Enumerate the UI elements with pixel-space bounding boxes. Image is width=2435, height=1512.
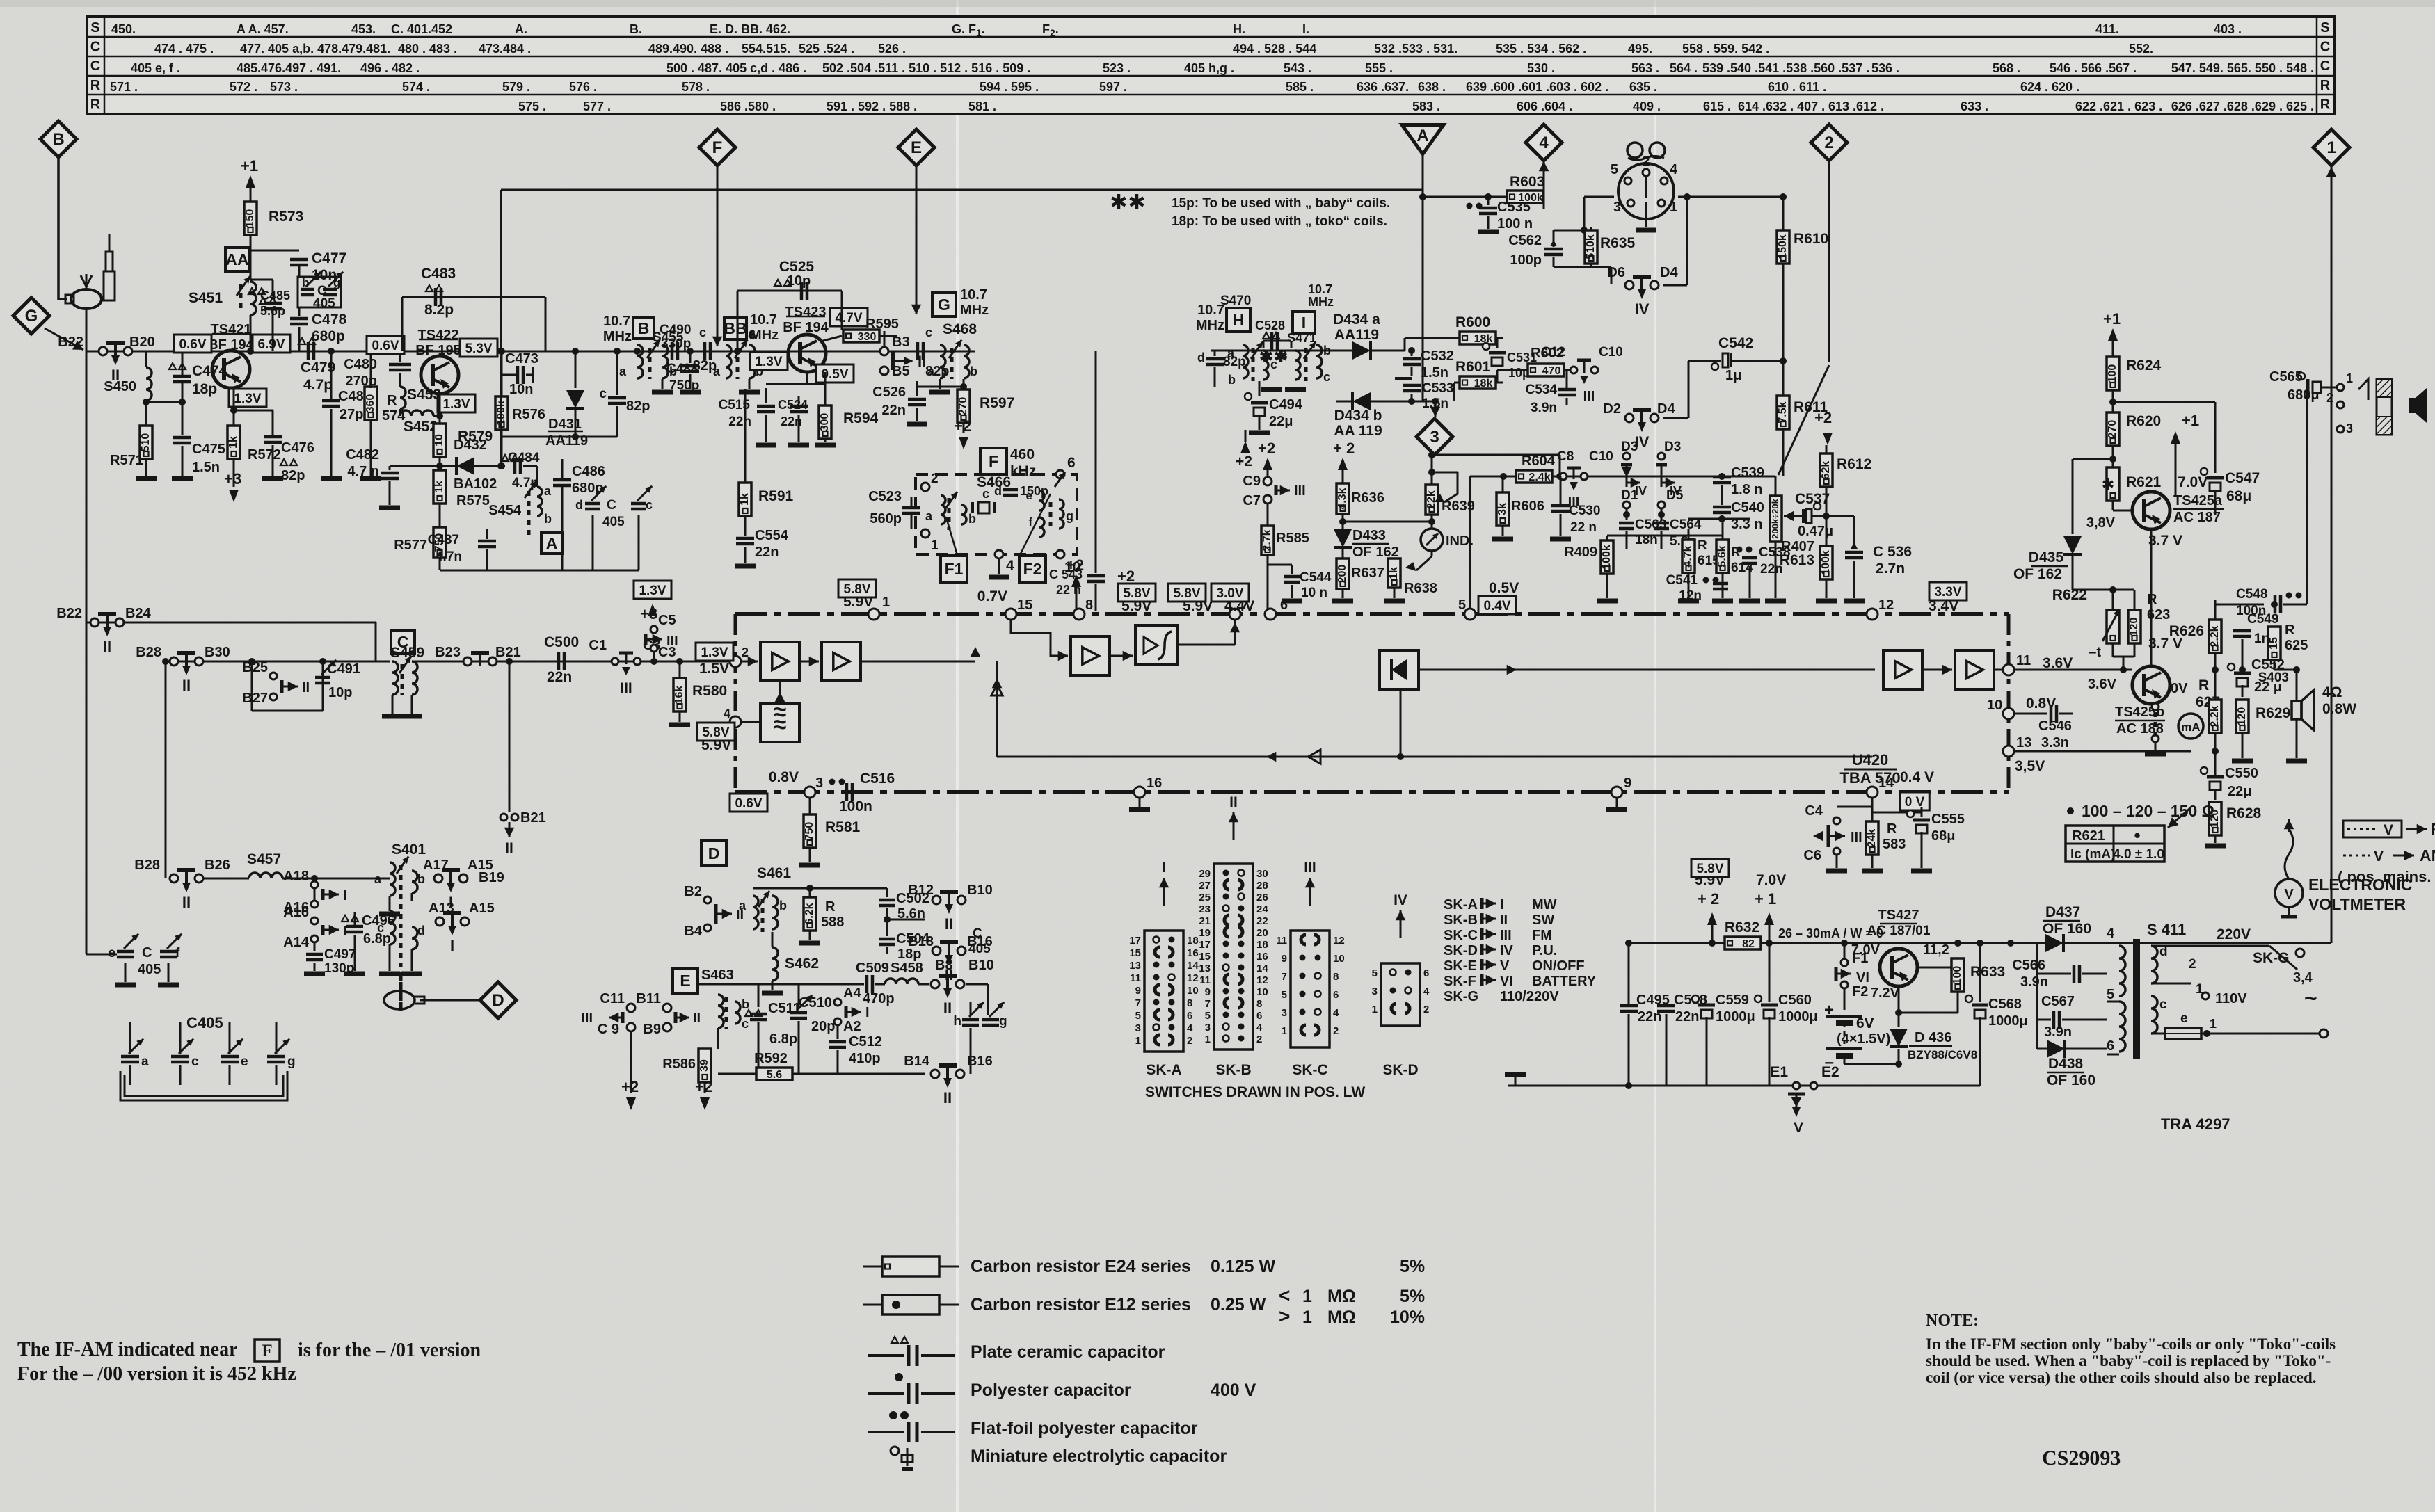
svg-text:B9: B9 [643,1022,661,1037]
capacitor C538 22n [1737,547,1743,553]
switch D1 D5 [1623,501,1630,508]
resistor R626 2.2k [2214,600,2217,620]
svg-text:4: 4 [2107,926,2115,941]
svg-text:R: R [387,393,397,408]
svg-text:C516: C516 [860,771,895,787]
svg-text:16: 16 [1256,951,1268,963]
svg-text:2.7k: 2.7k [1261,529,1273,551]
capacitor C552 22u [2234,672,2251,675]
svg-text:BZY88/C6V8: BZY88/C6V8 [1908,1048,1977,1061]
svg-text:68μ: 68μ [1931,828,1955,844]
pin 13 [2003,746,2014,757]
svg-text:I.: I. [1302,22,1309,36]
svg-text:SK-B: SK-B [1215,1062,1251,1078]
transistor TS425a AC187 [2132,492,2170,529]
svg-text:4: 4 [1256,1022,1263,1034]
svg-text:6: 6 [1280,597,1288,613]
supply +1 at TS425a collector [2171,431,2180,444]
ground under R571 [136,476,157,481]
voltage 1.3V +3 above [634,581,671,599]
svg-text:d: d [575,498,583,512]
capacitor C528 [1263,332,1270,339]
svg-text:B12: B12 [908,883,934,898]
svg-text:C535: C535 [1497,200,1531,215]
svg-text:OF 160: OF 160 [2047,1072,2095,1088]
svg-text:c: c [599,387,607,401]
svg-text:AA119: AA119 [1334,327,1379,343]
svg-text:C547: C547 [2225,470,2260,486]
svg-text:546 . 566 .567 .: 546 . 566 .567 . [2050,61,2137,75]
connector diamond 3 [1416,419,1453,455]
svg-text:(4×1.5V): (4×1.5V) [1837,1031,1890,1047]
svg-text:a: a [925,509,933,523]
svg-text:D434 b: D434 b [1334,408,1382,424]
capacitor C477 10n [250,250,299,252]
svg-text:B.: B. [630,22,642,36]
capacitor C473 10n [502,374,516,376]
ground symbol power [1508,1071,1509,1086]
svg-text:10: 10 [433,434,445,447]
ground under pin 4 [998,558,1000,574]
box D [701,841,726,866]
svg-text:17: 17 [1129,935,1141,947]
wire C541 row [1607,535,1723,537]
svg-text:C3: C3 [658,645,676,660]
svg-text:+ 2: + 2 [1698,890,1719,908]
svg-text:4: 4 [1333,1007,1339,1019]
wire D433 junction to R639 [1343,521,1432,523]
svg-text:is for the – /01 version: is for the – /01 version [298,1340,481,1361]
switch D3 D3 [1623,453,1630,460]
svg-text:FM: FM [2431,820,2435,838]
svg-text:18: 18 [1256,939,1268,951]
limiter to det wire [1177,644,1235,646]
svg-text:D5: D5 [1666,488,1684,503]
capacitor C567 3.9n [2036,974,2038,1020]
svg-text:11: 11 [2016,653,2031,668]
wire pin13 y=1080 [2014,750,2191,753]
svg-text:460: 460 [1010,447,1035,463]
svg-text:R638: R638 [1404,581,1437,596]
svg-text:474 . 475 .: 474 . 475 . [154,42,214,56]
wire to S401 [314,878,316,901]
dashed link TS425b emitter to meter [2152,703,2159,710]
resistor R580 16k [676,658,683,665]
switch F1 F2 fuse link [1841,959,1848,966]
svg-text:II: II [945,915,953,933]
svg-text:G: G [938,296,950,314]
svg-text:C523: C523 [868,489,902,504]
svg-text:a: a [927,364,935,378]
svg-text:C480: C480 [344,357,377,372]
wire diamond3 row y=654 [1432,454,1560,456]
capacitor d 150p [1003,488,1018,492]
svg-text:18: 18 [1187,935,1199,947]
diode D434b AA119 [1336,401,1352,403]
fuse [2151,1033,2165,1035]
svg-text:5: 5 [1611,162,1618,177]
svg-text:19: 19 [1199,927,1211,939]
svg-text:SW: SW [1532,912,1554,928]
svg-text:S457: S457 [247,851,281,867]
svg-text:C11: C11 [600,991,625,1006]
wire from B down to antenna [58,157,67,299]
diode D436 zener BZY88/C6V8 [1890,1029,1908,1047]
capacitor C566 3.9n [2073,965,2076,983]
svg-text:3k: 3k [1496,503,1508,515]
svg-text:0.7V: 0.7V [977,588,1007,604]
svg-text:B14: B14 [904,1054,930,1069]
svg-text:4.4V: 4.4V [1224,598,1254,614]
svg-text:405: 405 [138,962,161,977]
svg-text:15: 15 [2268,637,2280,650]
oscillator block [760,703,799,742]
svg-text:B: B [52,130,64,149]
resistor R573 150 [246,175,255,188]
wire osc up arrow [779,692,781,703]
svg-text:638 .: 638 . [1418,80,1446,94]
svg-text:For the – /00 version it is 45: For the – /00 version it is 452 kHz [17,1363,296,1385]
wire jack to speaker S403 [2336,392,2337,400]
svg-text:D4: D4 [1657,401,1675,417]
svg-text:4: 4 [1670,162,1678,177]
svg-text:E: E [680,972,690,990]
svg-text:3.3n: 3.3n [2041,735,2069,750]
wire S456 to TS423 [749,351,789,353]
capacitor C536 2.7n [1826,515,1854,517]
wire amp1 amp2 [799,661,819,663]
svg-text:5: 5 [2107,987,2114,1002]
svg-text:D 436: D 436 [1915,1030,1951,1045]
svg-text:C405: C405 [186,1014,223,1031]
switch A16 A14 [311,917,318,924]
svg-text:D6: D6 [1607,265,1625,280]
junction to C547 [2109,399,2116,405]
svg-text:523 .: 523 . [1103,61,1131,75]
svg-text:1: 1 [1282,1025,1287,1037]
wire pin2 to amp1 [741,661,758,663]
tuning gang C405 section a [129,1022,131,1054]
wire row y=628 from D431 [502,436,617,438]
svg-text:g: g [287,1054,296,1069]
svg-text:150k: 150k [1777,234,1789,259]
DIN connector socket [1618,163,1674,219]
svg-text:1: 1 [1205,1034,1211,1045]
arrow into R407 wiper [1784,515,1802,517]
connector triangle A [1402,125,1444,154]
svg-text:C560: C560 [1778,992,1812,1008]
svg-text:Miniature electrolytic capacit: Miniature electrolytic capacitor [971,1447,1227,1466]
svg-text:576 .: 576 . [569,80,597,94]
svg-text:6.8p: 6.8p [769,1031,797,1047]
wire top S461 row [753,887,887,890]
svg-text:500 . 487. 405 c,d . 486 .: 500 . 487. 405 c,d . 486 . [666,61,806,75]
svg-text:R409: R409 [1564,545,1597,560]
svg-text:E2: E2 [1821,1064,1839,1080]
svg-text:SK-D: SK-D [1444,943,1478,958]
capacitor C530 22n [1560,476,1562,504]
svg-text:BB: BB [724,319,747,337]
svg-text:10.7: 10.7 [1308,282,1332,296]
svg-text:1000μ: 1000μ [1716,1009,1755,1024]
wire TS423 collector up [823,336,842,341]
svg-text:6: 6 [1333,989,1339,1001]
trimmer C1 C3 [612,658,618,665]
svg-text:1.3V: 1.3V [234,392,261,406]
arrow from G to main bus [45,328,83,350]
wire B-line down x=238 [165,661,167,878]
svg-text:e: e [241,1054,248,1069]
svg-text:110V: 110V [2215,991,2247,1006]
svg-text:100k: 100k [1820,550,1832,575]
resistor R620 270 [2107,412,2119,446]
svg-text:S463: S463 [701,967,734,983]
svg-text:536 .: 536 . [1871,61,1899,75]
svg-text:SK-D: SK-D [1382,1062,1418,1078]
svg-text:C 9: C 9 [598,1022,619,1037]
resistor R594 300 [824,372,827,405]
svg-text:S403: S403 [2258,670,2289,685]
svg-text:405 e, f .: 405 e, f . [131,61,180,75]
svg-text:+2: +2 [621,1078,639,1095]
coil S401 c d [390,911,395,944]
svg-text:U420: U420 [1852,751,1889,769]
capacitor d 82p at S470 [1214,351,1216,356]
svg-text:+ 2: + 2 [1333,440,1355,457]
connector diamond D [480,982,516,1018]
wire detector row y=685 [1470,476,1775,478]
svg-text:B8: B8 [935,958,953,973]
svg-text:2: 2 [742,645,749,659]
svg-text:680μ: 680μ [2288,387,2320,403]
svg-text:583 .: 583 . [1412,99,1440,113]
svg-text:11: 11 [1276,935,1287,947]
voltage box 1.3V at TS421 emitter [229,389,266,407]
arrow IV above SK-D [1400,910,1402,938]
svg-text:P.U.: P.U. [1532,943,1557,958]
capacitor C509 470p [863,983,864,986]
legend plate ceramic capacitor [891,1337,898,1343]
switch matrix SK-D [1381,963,1420,1026]
wire pin5 column [1469,476,1471,614]
svg-text:D438: D438 [2048,1056,2084,1072]
svg-text:+2: +2 [1814,409,1832,426]
svg-text:C5: C5 [658,613,676,628]
voltage box 1.3V TS422 [438,394,475,412]
svg-text:C541: C541 [1666,573,1698,588]
supply +2 under C11 [630,1031,632,1093]
arrow I above SK-A [1163,878,1165,906]
svg-text:0.47μ: 0.47μ [1798,524,1833,539]
wire from diamond 2 down [1828,161,1830,362]
svg-text:750: 750 [804,822,815,841]
svg-text:c: c [742,1017,749,1031]
capacitor C481 27p [330,351,333,399]
svg-text:5: 5 [1135,1010,1141,1022]
svg-text:CS29093: CS29093 [2042,1447,2121,1470]
coil S451 oscillator [250,282,256,315]
capacitor C531 10u electrolytic [1496,338,1499,348]
svg-text:22n: 22n [882,403,906,418]
pot R639 22k [1428,451,1435,458]
svg-text:C6: C6 [1803,848,1821,863]
svg-text:12: 12 [1878,597,1894,613]
pin 15 [1005,609,1016,620]
svg-text:510: 510 [140,433,152,452]
svg-text:3: 3 [1613,200,1621,215]
svg-text:A4: A4 [843,986,861,1001]
svg-text:R629: R629 [2256,705,2290,721]
output coupling wire [2214,670,2217,700]
svg-text:R592: R592 [754,1051,788,1066]
capacitor C486 680p [562,482,570,483]
svg-text:III: III [1304,860,1316,876]
svg-text:D434 a: D434 a [1333,312,1380,328]
svg-text:0V: 0V [2171,681,2188,696]
svg-text:606 .604 .: 606 .604 . [1517,99,1572,113]
capacitor C565 680u output [2274,669,2289,670]
svg-text:2: 2 [1824,134,1833,152]
svg-text:588: 588 [821,915,844,930]
svg-text:8: 8 [1333,971,1339,983]
svg-text:R: R [825,899,836,915]
pin 6 junction [1056,470,1064,478]
svg-text:C532: C532 [1421,348,1454,364]
svg-text:H.: H. [1233,22,1245,36]
capacitor C546 3.3n [2014,713,2047,715]
wire from E down with arrow [916,166,918,314]
asterisks coupling [1265,350,1268,362]
svg-text:8: 8 [1256,998,1262,1010]
svg-text:10.7: 10.7 [750,312,777,328]
svg-text:C477: C477 [312,250,346,266]
svg-text:C567: C567 [2041,994,2075,1009]
capacitor C524 22n [798,396,800,403]
svg-text:S470: S470 [1220,293,1251,308]
resistor R637 200 [1336,558,1349,589]
svg-text:22 n: 22 n [1570,520,1597,535]
voltage box 5.3V [460,339,497,357]
svg-text:R: R [2285,622,2295,638]
svg-text:R620: R620 [2126,413,2161,429]
svg-text:571 .: 571 . [110,80,138,94]
svg-text:16: 16 [1187,947,1199,959]
svg-text:6: 6 [2107,1038,2114,1054]
svg-text:5: 5 [1458,597,1466,613]
svg-text:558 . 559. 542 .: 558 . 559. 542 . [1682,42,1769,56]
svg-text:0.6V: 0.6V [179,337,206,352]
capacitor c 82p before S468 [908,351,915,352]
svg-text:405: 405 [602,515,625,529]
capacitor C511 6.8p [758,984,760,1007]
svg-text:TS427: TS427 [1878,908,1919,923]
R638 wiper arrow [1431,550,1433,556]
svg-text:7: 7 [1282,971,1287,983]
switch C11 C9 [627,1004,635,1012]
svg-text:B22: B22 [56,606,82,621]
svg-text:III: III [1294,483,1306,499]
svg-text:R580: R580 [692,683,727,699]
svg-text:b: b [970,364,977,378]
svg-text:R621: R621 [2072,828,2105,844]
svg-text:ON/OFF: ON/OFF [1532,958,1585,974]
svg-text:R632: R632 [1725,919,1759,935]
svg-text:III: III [1851,830,1862,845]
svg-text:C544: C544 [1300,570,1332,585]
svg-text:>: > [1279,1305,1290,1327]
svg-text:<: < [1279,1285,1290,1306]
svg-text:d: d [417,924,425,938]
resistor R632 82 horizontal [1725,937,1761,949]
svg-text:b: b [968,512,976,526]
telescopic antenna [109,234,111,252]
resistor R409 100k [1601,540,1613,574]
svg-text:II: II [943,1089,952,1107]
svg-text:S450: S450 [104,379,136,394]
svg-text:9: 9 [1135,985,1141,997]
IC boundary left edge [734,614,737,792]
coil S458 [875,983,885,986]
capacitor C496 6.8p [314,912,355,913]
svg-text:I: I [1500,897,1504,912]
svg-text:C10: C10 [1589,449,1613,464]
tape head symbol [1627,143,1643,158]
svg-text:470: 470 [1542,365,1561,377]
svg-text:A16: A16 [283,905,309,920]
svg-text:MHz: MHz [960,303,989,318]
svg-text:555 .: 555 . [1365,61,1393,75]
svg-text:+ 1: + 1 [1755,890,1776,908]
svg-text:B19: B19 [479,870,504,885]
svg-text:e: e [2180,1011,2188,1026]
svg-text:6: 6 [1423,967,1429,979]
svg-text:3,5V: 3,5V [2015,758,2045,774]
wire detector input y=504 [1211,350,1359,352]
svg-text:1: 1 [2346,371,2353,385]
svg-text:Ic (mA): Ic (mA) [2070,847,2115,862]
svg-text:636 .637.: 636 .637. [1357,80,1409,94]
resistor R586 39 [717,1028,719,1049]
diode D437 OF160 [2007,940,2014,947]
svg-text:477. 405 a,b. 478.479.481.: 477. 405 a,b. 478.479.481. [240,42,390,56]
svg-text:1000μ: 1000μ [1778,1009,1818,1024]
svg-text:SK-G: SK-G [1444,989,1478,1004]
tuning gang C405 b g box [298,277,341,307]
svg-text:2: 2 [2326,391,2333,405]
svg-text:5: 5 [1205,1010,1211,1022]
svg-text:1.3V: 1.3V [755,355,782,369]
svg-text:II: II [182,894,191,911]
junction R620 R621 [2109,456,2116,463]
svg-text:4: 4 [724,707,730,721]
svg-text:OF 160: OF 160 [2043,921,2091,937]
box A near S454 [541,533,562,554]
legend flat-foil polyester capacitor [889,1411,897,1419]
svg-text:f: f [175,946,180,960]
NTC R622 [2107,610,2119,643]
svg-text:200: 200 [1336,565,1348,584]
svg-text:150: 150 [244,209,256,228]
svg-text:should be used. When a "baby"-: should be used. When a "baby"-coil is re… [1926,1352,2331,1369]
switch matrix SK-A [1144,931,1183,1052]
svg-text:C473: C473 [505,351,538,367]
svg-text:MΩ: MΩ [1327,1287,1356,1306]
svg-text:3: 3 [1430,428,1439,447]
pin 14 [1867,787,1878,798]
svg-text:A18: A18 [283,869,309,884]
svg-text:552.: 552. [2129,42,2153,56]
switch A4 A2 [834,999,841,1006]
